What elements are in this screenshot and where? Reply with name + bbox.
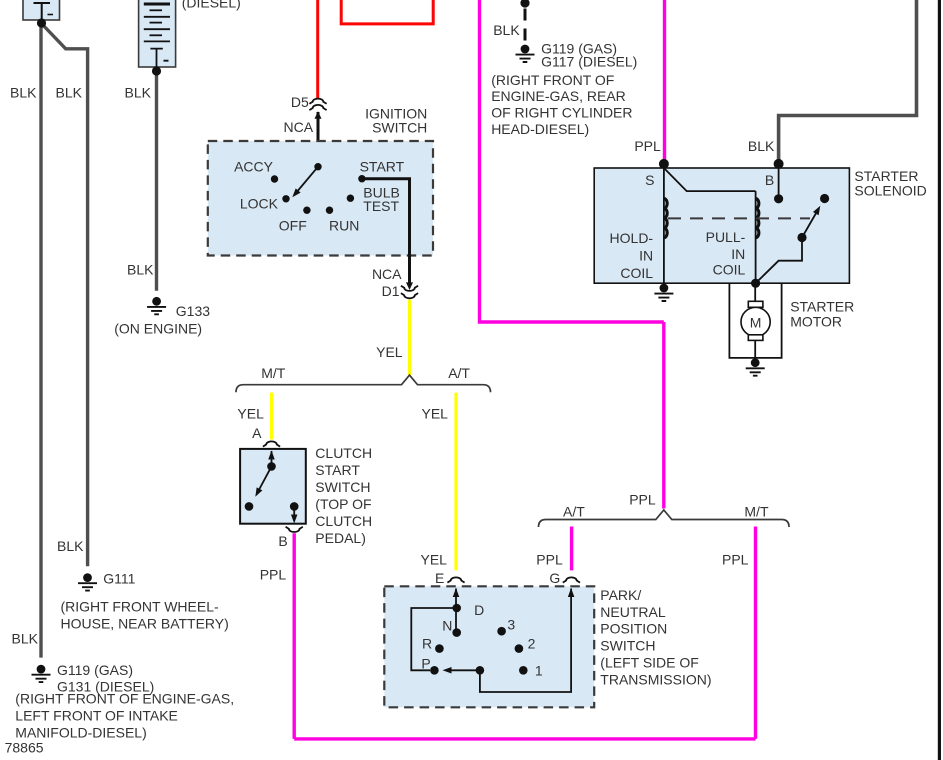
svg-text:OF RIGHT CYLINDER: OF RIGHT CYLINDER (491, 105, 632, 121)
svg-text:G119 (GAS): G119 (GAS) (57, 662, 133, 678)
svg-text:PULL-: PULL- (706, 229, 746, 245)
svg-text:PPL: PPL (536, 552, 563, 568)
svg-text:CLUTCH: CLUTCH (315, 445, 372, 461)
svg-text:D5: D5 (291, 94, 309, 110)
svg-text:A: A (252, 425, 262, 441)
svg-text:START: START (360, 159, 405, 175)
svg-text:PPL: PPL (260, 567, 287, 583)
svg-text:78865: 78865 (5, 740, 44, 756)
svg-text:M/T: M/T (261, 365, 286, 381)
svg-text:PPL: PPL (722, 552, 749, 568)
svg-text:IN: IN (639, 247, 653, 263)
svg-text:OFF: OFF (279, 218, 307, 234)
svg-text:3: 3 (507, 617, 515, 633)
svg-text:D1: D1 (382, 283, 400, 299)
svg-text:B: B (278, 533, 287, 549)
svg-text:BLK: BLK (493, 22, 520, 38)
svg-text:(DIESEL): (DIESEL) (182, 0, 241, 11)
svg-text:B: B (765, 172, 774, 188)
svg-text:CLUTCH: CLUTCH (315, 513, 372, 529)
svg-text:START: START (315, 462, 360, 478)
svg-text:YEL: YEL (422, 406, 449, 422)
svg-text:(LEFT SIDE OF: (LEFT SIDE OF (600, 655, 699, 671)
svg-text:MANIFOLD-DIESEL): MANIFOLD-DIESEL) (15, 725, 146, 741)
svg-text:SWITCH: SWITCH (315, 479, 370, 495)
svg-text:(RIGHT FRONT OF: (RIGHT FRONT OF (491, 72, 614, 88)
svg-text:G: G (549, 570, 560, 586)
svg-text:NCA: NCA (372, 266, 402, 282)
svg-text:M/T: M/T (744, 504, 769, 520)
svg-text:NEUTRAL: NEUTRAL (600, 604, 666, 620)
svg-text:YEL: YEL (237, 406, 264, 422)
svg-text:BLK: BLK (10, 85, 37, 101)
svg-text:BLK: BLK (56, 85, 83, 101)
svg-text:PARK/: PARK/ (600, 587, 641, 603)
svg-text:RUN: RUN (329, 218, 359, 234)
svg-text:COIL: COIL (713, 262, 746, 278)
svg-text:YEL: YEL (421, 552, 448, 568)
svg-text:G133: G133 (176, 303, 210, 319)
svg-text:(RIGHT FRONT WHEEL-: (RIGHT FRONT WHEEL- (61, 599, 219, 615)
svg-text:BLK: BLK (125, 85, 152, 101)
svg-text:POSITION: POSITION (600, 621, 667, 637)
svg-text:SOLENOID: SOLENOID (854, 182, 926, 198)
svg-text:BLK: BLK (57, 538, 84, 554)
svg-text:P: P (421, 655, 430, 671)
svg-text:(TOP OF: (TOP OF (315, 496, 371, 512)
svg-text:SWITCH: SWITCH (372, 120, 427, 136)
svg-text:IN: IN (731, 246, 745, 262)
svg-text:BLK: BLK (12, 631, 39, 647)
svg-text:HEAD-DIESEL): HEAD-DIESEL) (491, 121, 589, 137)
svg-text:1: 1 (535, 663, 543, 679)
svg-text:NCA: NCA (284, 119, 314, 135)
svg-text:PEDAL): PEDAL) (315, 530, 366, 546)
svg-text:SWITCH: SWITCH (600, 638, 655, 654)
svg-text:E: E (435, 570, 444, 586)
svg-text:COIL: COIL (620, 265, 653, 281)
svg-text:A/T: A/T (563, 504, 585, 520)
svg-text:R: R (422, 635, 432, 651)
svg-text:BLK: BLK (127, 262, 154, 278)
svg-text:N: N (442, 618, 452, 634)
svg-text:STARTER: STARTER (790, 298, 854, 314)
svg-text:TRANSMISSION): TRANSMISSION) (600, 672, 711, 688)
svg-text:D: D (474, 602, 484, 618)
svg-text:M: M (750, 315, 762, 331)
svg-text:2: 2 (528, 635, 536, 651)
svg-text:G117 (DIESEL): G117 (DIESEL) (541, 53, 637, 69)
svg-text:A/T: A/T (448, 365, 470, 381)
svg-text:TEST: TEST (363, 198, 399, 214)
svg-text:ACCY: ACCY (234, 159, 274, 175)
svg-text:MOTOR: MOTOR (790, 314, 842, 330)
svg-text:LEFT FRONT OF INTAKE: LEFT FRONT OF INTAKE (15, 708, 178, 724)
svg-text:(RIGHT FRONT OF ENGINE-GAS,: (RIGHT FRONT OF ENGINE-GAS, (15, 691, 234, 707)
svg-text:YEL: YEL (376, 344, 403, 360)
svg-text:G111: G111 (103, 571, 135, 587)
svg-text:(ON ENGINE): (ON ENGINE) (114, 321, 202, 337)
svg-text:S: S (645, 172, 654, 188)
svg-text:PPL: PPL (634, 138, 661, 154)
svg-text:HOUSE, NEAR BATTERY): HOUSE, NEAR BATTERY) (61, 616, 229, 632)
svg-text:ENGINE-GAS, REAR: ENGINE-GAS, REAR (491, 88, 626, 104)
svg-text:BLK: BLK (748, 138, 775, 154)
svg-text:LOCK: LOCK (240, 196, 279, 212)
svg-text:HOLD-: HOLD- (610, 230, 654, 246)
svg-text:PPL: PPL (629, 492, 656, 508)
